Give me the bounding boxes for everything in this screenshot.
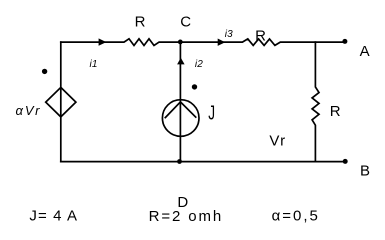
svg-text:i3: i3 [225, 29, 233, 40]
svg-text:J: J [208, 102, 215, 124]
svg-text:α=0,5: α=0,5 [272, 208, 320, 225]
svg-text:J= 4 A: J= 4 A [29, 207, 78, 224]
svg-text:Vr: Vr [269, 133, 286, 150]
svg-text:R: R [330, 103, 341, 120]
svg-text:i1: i1 [90, 59, 98, 70]
svg-text:C: C [180, 14, 191, 31]
svg-text:A: A [360, 43, 370, 60]
svg-text:B: B [360, 162, 370, 179]
svg-text:αVr: αVr [16, 103, 42, 118]
svg-text:R: R [135, 14, 146, 31]
svg-text:R: R [255, 28, 266, 45]
svg-text:R=2 omh: R=2 omh [149, 208, 224, 225]
svg-text:i2: i2 [195, 59, 203, 70]
